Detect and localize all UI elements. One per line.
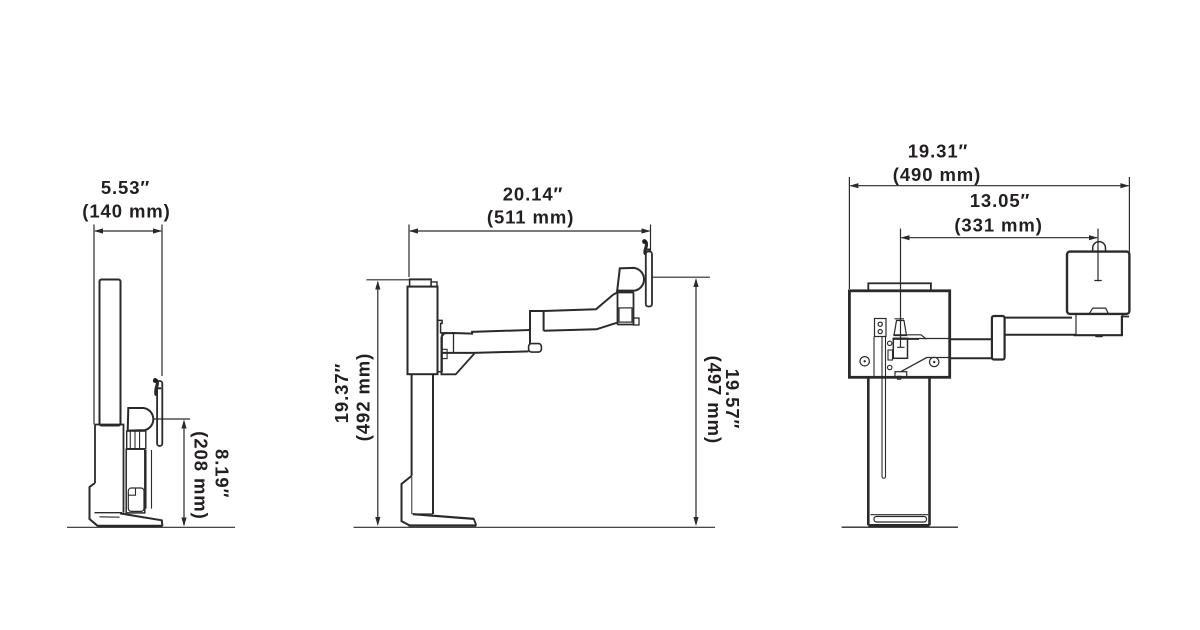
arrowhead right [1120,183,1129,188]
end joint bottom and right [1074,316,1122,335]
carriage inner rounded rect [128,488,144,511]
arrowhead right [642,228,651,233]
svg-text:19.31″: 19.31″ [908,141,969,162]
screw right [930,357,939,366]
arrowhead left [901,235,910,240]
extension line right [650,225,652,253]
latch grip lines [130,431,139,449]
monitor block [1067,252,1129,314]
dim line 19.37 [377,282,379,525]
inner bar [874,517,927,523]
svg-text:(490 mm): (490 mm) [893,164,981,185]
clevis tab [634,318,640,325]
boom under-wedge [441,337,474,375]
leader line 8.19 [154,418,191,420]
tiny square below [898,376,901,379]
elbow block [530,311,544,344]
svg-text:13.05″: 13.05″ [970,190,1031,211]
svg-text:(140 mm): (140 mm) [82,201,170,222]
boom end cap divider [453,333,455,353]
column below plate [868,377,929,525]
carriage body [126,449,145,513]
column top cap [410,279,432,286]
foot back outline [402,476,412,526]
upper bar top view [1005,318,1076,335]
housing body [95,425,124,513]
D bracket (pivot housing) [128,408,154,431]
clevis block [618,293,634,325]
leader 19.57 [652,276,711,278]
svg-text:19.37″: 19.37″ [331,363,352,424]
arrowhead down [693,517,698,526]
foot bottom heavy [409,524,477,526]
monitor plate (edge view) [157,381,162,446]
heel outline [90,483,99,526]
foot top edge [120,513,162,526]
hook on plate top [155,380,157,395]
carriage divider [128,488,135,495]
step under block right [1122,314,1129,316]
centerline column [897,229,905,348]
svg-text:5.53″: 5.53″ [101,177,150,198]
hook blob [642,239,647,244]
svg-text:(492 mm): (492 mm) [353,353,374,441]
ground line view3 [842,526,958,528]
arrowhead up [181,420,186,429]
top tab [868,283,931,291]
vline 331 right [1094,229,1101,282]
arrowhead up [693,278,698,287]
column (tall riser) [100,280,121,426]
extension line left [93,225,95,425]
boom (lower arm tube) [441,330,529,353]
notch at block bottom [1090,308,1109,313]
boom right tongue [529,344,542,353]
arrowhead left [849,183,858,188]
inner line near bottom [871,514,929,516]
slider strip [146,450,152,509]
foot toe [474,519,477,526]
clevis inner [619,308,632,322]
column cap step [431,282,437,287]
hook on plate [644,241,646,254]
svg-text:(331 mm): (331 mm) [954,214,1042,235]
leader 19.37 top [366,279,430,281]
arrowhead left [409,228,418,233]
arrowhead down [375,517,380,526]
svg-text:8.19″: 8.19″ [211,449,232,498]
screw left dot [864,360,866,362]
mounting plate [849,291,949,378]
side bracket on column [438,320,448,371]
hook blob [153,378,158,383]
latch detail [441,349,447,358]
hole 2 [878,330,882,334]
elbow block top view [992,316,1005,360]
cone cap dash [895,318,905,320]
ground line view1 [67,526,235,528]
extension line right [161,225,163,377]
hole 1 [878,322,882,326]
screw right dot [933,361,935,363]
monitor plate strip [646,252,652,307]
arm silhouette inside plate [901,339,950,372]
guide lines / rod upper [882,337,886,377]
arrowhead left [94,228,103,233]
bracket with two holes [875,319,887,337]
small circle a [888,341,892,345]
svg-text:(497 mm): (497 mm) [704,356,725,444]
bottom tab [895,372,907,377]
upper arm tube [544,292,618,330]
svg-text:20.14″: 20.14″ [503,184,564,205]
arm bar top view [950,339,992,358]
arrowhead up [375,281,380,290]
arrowhead down [181,518,186,527]
arrowhead right [153,228,162,233]
dim line 8.19 vertical [183,421,185,525]
arrowhead right [1089,235,1098,240]
dimension line 490mm [850,185,1128,187]
hook nub [647,249,651,251]
housing bottom line [95,512,123,514]
tab under joint [1095,335,1103,337]
dimension line 331mm [902,237,1098,239]
small rect [888,350,893,360]
screw left [860,357,869,366]
foot inner edge [412,477,433,514]
lower column [412,374,433,514]
bracket left edge extension [873,337,875,378]
end joint top view [1075,315,1077,335]
extension line left [848,177,850,289]
latch block under bracket [127,431,146,449]
svg-text:(208 mm): (208 mm) [190,431,211,519]
small circle b [888,365,892,369]
wing line [893,335,926,340]
central block [893,338,907,358]
extension line left [408,225,410,278]
cone [894,321,907,336]
dimension line 140mm [95,230,161,232]
foot inner line [100,516,120,518]
dimension line 511mm [410,230,650,232]
D head [617,268,644,291]
column housing [408,287,438,375]
hook nub [157,387,161,389]
extension line right [1128,177,1130,252]
svg-text:(511 mm): (511 mm) [487,207,574,228]
rod [882,377,886,478]
monitor block top bump [1093,242,1106,252]
foot top edge [413,514,474,519]
heavy bar under head [616,290,633,293]
ground line view2 [354,526,716,528]
foot sole bottom [98,525,162,527]
dim line 19.57 [695,280,697,525]
